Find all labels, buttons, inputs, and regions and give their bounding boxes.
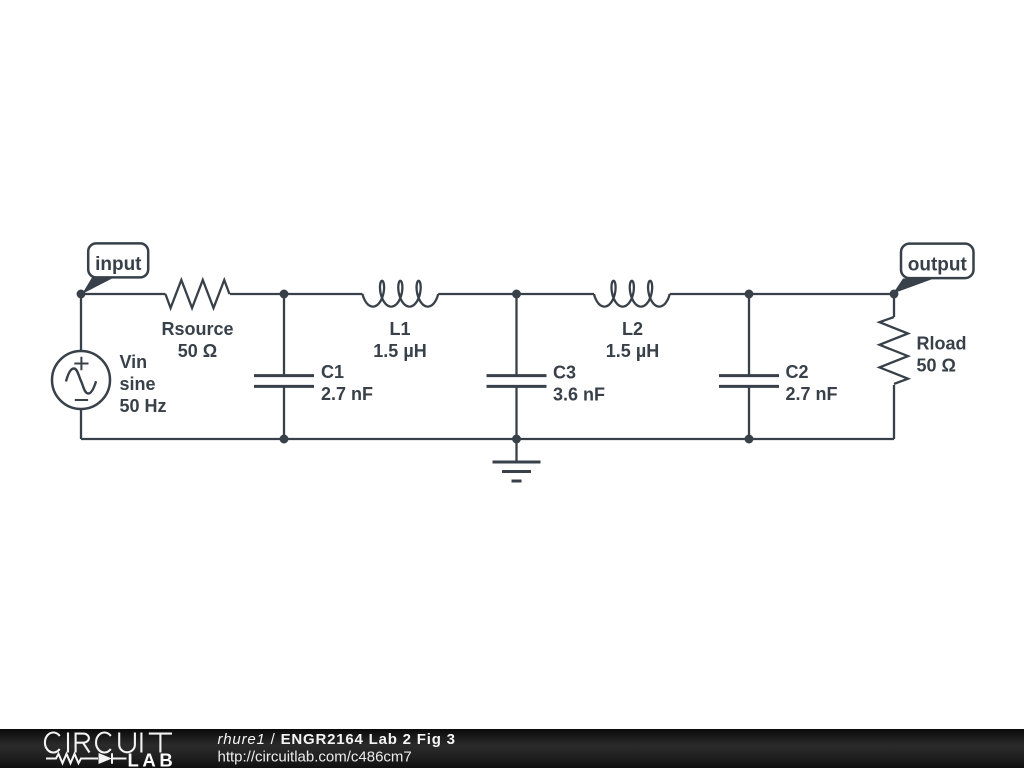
svg-text:50 Ω: 50 Ω <box>917 356 956 376</box>
svg-text:input: input <box>95 254 142 275</box>
svg-text:http://circuitlab.com/c486cm7: http://circuitlab.com/c486cm7 <box>218 749 412 766</box>
svg-text:Rsource: Rsource <box>161 319 233 339</box>
svg-text:50 Hz: 50 Hz <box>120 396 167 416</box>
svg-text:Rload: Rload <box>917 334 967 354</box>
svg-text:1.5 µH: 1.5 µH <box>373 341 426 361</box>
svg-text:output: output <box>908 254 968 275</box>
svg-text:3.6 nF: 3.6 nF <box>553 385 605 405</box>
svg-text:rhure1 / ENGR2164 Lab 2 Fig 3: rhure1 / ENGR2164 Lab 2 Fig 3 <box>218 731 456 748</box>
svg-text:L1: L1 <box>389 319 410 339</box>
svg-text:C1: C1 <box>321 362 344 382</box>
svg-text:2.7 nF: 2.7 nF <box>321 384 373 404</box>
svg-text:Vin: Vin <box>120 352 148 372</box>
svg-text:C3: C3 <box>553 362 576 382</box>
svg-text:50 Ω: 50 Ω <box>178 341 217 361</box>
svg-text:2.7 nF: 2.7 nF <box>786 384 838 404</box>
svg-text:LAB: LAB <box>128 750 177 768</box>
svg-text:1.5 µH: 1.5 µH <box>606 341 659 361</box>
svg-text:L2: L2 <box>622 319 643 339</box>
svg-text:sine: sine <box>120 374 156 394</box>
svg-text:C2: C2 <box>786 362 809 382</box>
